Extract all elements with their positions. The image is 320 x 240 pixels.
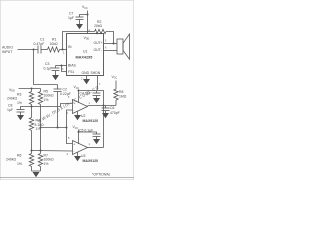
node U3 VCC/C5 junction xyxy=(78,131,80,133)
svg-text:1µF: 1µF xyxy=(7,108,13,112)
wire C4 to ground xyxy=(96,96,98,99)
svg-text:U2: U2 xyxy=(81,114,85,118)
wire R3 bottom xyxy=(31,105,33,107)
ground U2 xyxy=(74,115,81,120)
svg-text:C6: C6 xyxy=(110,106,114,110)
resistor R7 xyxy=(38,154,42,167)
wire BIAS xyxy=(56,65,67,67)
svg-text:C7: C7 xyxy=(69,12,73,16)
svg-text:C5 0.1µF: C5 0.1µF xyxy=(79,128,93,132)
wire U3 ground stub xyxy=(77,152,79,156)
ground C7 xyxy=(76,24,83,29)
svg-text:0.1µF: 0.1µF xyxy=(44,67,53,71)
wire GND pin xyxy=(86,76,88,80)
wire U2 ground stub xyxy=(77,111,79,115)
wire U2 inverting input column xyxy=(67,110,73,144)
wire R2 to OUT+ xyxy=(106,32,114,44)
svg-text:1%: 1% xyxy=(17,101,22,105)
wire U2 VCC riser xyxy=(78,90,80,104)
svg-text:MAX9120: MAX9120 xyxy=(83,159,99,163)
capacitor C4 xyxy=(93,93,101,96)
svg-text:U3: U3 xyxy=(81,154,85,158)
svg-text:240kΩ: 240kΩ xyxy=(7,97,17,101)
svg-text:SHDN: SHDN xyxy=(91,71,101,75)
capacitor C8 xyxy=(17,110,25,113)
svg-text:20kΩ: 20kΩ xyxy=(94,24,103,28)
svg-text:OUT+: OUT+ xyxy=(94,41,103,45)
wire R4 bottom xyxy=(31,131,33,151)
wire R5 top xyxy=(40,89,42,92)
wire C7 to ground xyxy=(79,20,81,25)
wire U3 output xyxy=(88,147,104,149)
wire R7 bottom xyxy=(40,167,42,172)
wire lower threshold line xyxy=(32,150,73,153)
ground divider xyxy=(33,172,40,177)
svg-text:1%: 1% xyxy=(17,162,22,166)
wire R4 top xyxy=(31,107,33,118)
resistor R8 xyxy=(114,89,118,100)
wire OUT+ xyxy=(104,43,118,45)
svg-text:1%: 1% xyxy=(44,98,49,102)
wire U2 noninverting input xyxy=(32,104,73,107)
svg-text:R8: R8 xyxy=(119,90,123,94)
ground C6 xyxy=(102,113,109,118)
wire R8 to rail xyxy=(115,100,117,106)
wire feedback riser xyxy=(63,32,95,50)
svg-text:0.22µF: 0.22µF xyxy=(60,92,71,96)
wire U2 output rail xyxy=(88,105,117,107)
resistor R1 xyxy=(48,47,60,52)
svg-text:BIAS: BIAS xyxy=(68,63,77,67)
svg-text:240kΩ: 240kΩ xyxy=(6,158,16,162)
wire C2 bottom column xyxy=(57,92,59,128)
op-amp U2 MAX9120 xyxy=(73,100,88,114)
wire R3 top xyxy=(31,89,33,92)
wire R5 bottom column xyxy=(40,105,42,151)
wire ground bus xyxy=(32,170,41,172)
capacitor C3 xyxy=(52,68,60,71)
svg-text:OUT-: OUT- xyxy=(94,48,102,52)
wire audio tap to C2 xyxy=(34,50,58,85)
svg-text:R6: R6 xyxy=(17,153,21,157)
ground C5 xyxy=(93,139,100,144)
resistor R6 xyxy=(29,154,33,167)
watermark red script xyxy=(37,84,101,124)
resistor R4 xyxy=(29,118,33,131)
resistor R5 xyxy=(38,92,42,105)
wire C6 to ground xyxy=(105,111,107,114)
resistor R2 xyxy=(95,29,107,33)
node audio input tap xyxy=(33,49,35,51)
svg-text:INPUT: INPUT xyxy=(2,50,13,54)
svg-text:1MΩ: 1MΩ xyxy=(119,94,127,98)
svg-text:C3: C3 xyxy=(45,62,49,66)
svg-text:IN: IN xyxy=(68,45,72,49)
wire VDD rail xyxy=(19,88,41,90)
wire R7 top stub xyxy=(40,151,42,154)
svg-text:10kΩ: 10kΩ xyxy=(50,42,59,46)
op-amp U3 MAX9120 xyxy=(73,141,88,155)
node BIAS junction xyxy=(61,65,63,67)
wire C4 branch xyxy=(79,91,97,94)
svg-text:C8: C8 xyxy=(8,103,12,107)
ground U3 xyxy=(74,156,81,161)
wire C8 branch xyxy=(21,107,32,110)
node R4/R6 junction xyxy=(31,150,33,152)
wire C8 to ground xyxy=(20,112,22,115)
capacitor C6 xyxy=(102,108,110,111)
node IN junction xyxy=(62,49,64,51)
node bus/U2inv junction xyxy=(66,127,68,129)
wire SHDN net xyxy=(98,76,104,148)
ground C4 xyxy=(93,98,100,103)
node U2 VCC/C4 junction xyxy=(78,90,80,92)
capacitor C2 xyxy=(54,89,62,92)
wire FS1 tie xyxy=(62,66,67,72)
svg-text:GND: GND xyxy=(82,71,90,75)
capacitor C7 xyxy=(76,17,84,20)
ground GND pin xyxy=(83,79,90,84)
wire C3 drop xyxy=(55,66,57,69)
capacitor C1 xyxy=(38,46,41,54)
wire C3 to ground xyxy=(55,71,57,76)
node R3/R4 divider xyxy=(31,106,33,108)
svg-text:MAX9120: MAX9120 xyxy=(83,119,99,123)
wire C7 branch xyxy=(80,15,88,18)
wire audio input xyxy=(18,49,38,51)
ground C8 xyxy=(17,115,24,120)
wire C1 to R1 xyxy=(41,49,48,51)
node SHDN/U2 out junction xyxy=(103,105,105,107)
wire R6 bottom xyxy=(31,167,33,172)
op-amp U1 MAX4295 body xyxy=(67,34,104,76)
svg-text:1%: 1% xyxy=(44,162,49,166)
node VCC/C7 junction xyxy=(87,14,89,16)
svg-text:U1: U1 xyxy=(83,50,87,54)
svg-text:MAX4295: MAX4295 xyxy=(76,55,93,59)
wire C5 branch xyxy=(79,132,97,134)
node C2/bus junction xyxy=(57,127,59,129)
node R2/OUT+ junction xyxy=(113,43,115,45)
resistor R3 xyxy=(29,92,33,105)
wire C5 to ground xyxy=(96,137,98,140)
svg-text:R3: R3 xyxy=(17,92,21,96)
wire R1 to IN pin xyxy=(60,49,67,51)
svg-text:470pF: 470pF xyxy=(110,111,120,115)
svg-text:*OPTIONAL: *OPTIONAL xyxy=(92,172,111,176)
wire R6 top stub xyxy=(31,151,33,154)
ground C3 xyxy=(52,75,59,80)
wire OUT- xyxy=(104,50,118,52)
wire C2 top xyxy=(57,85,59,90)
wire VCC to VDD pin xyxy=(87,11,89,34)
node R3 rail tap xyxy=(31,88,33,90)
wire VCC to R8 xyxy=(115,81,117,90)
op-amp polarity marks xyxy=(73,102,75,154)
wire reference bus xyxy=(41,127,67,129)
wire U3 VCC riser xyxy=(78,130,80,145)
svg-text:FS1: FS1 xyxy=(68,70,74,74)
svg-text:1µF: 1µF xyxy=(68,16,74,20)
svg-text:C2: C2 xyxy=(63,87,67,91)
speaker xyxy=(117,34,130,59)
wire C6 stub xyxy=(105,106,107,109)
node R5/R7 junction xyxy=(40,150,42,152)
svg-text:0.47µF: 0.47µF xyxy=(34,42,45,46)
capacitor C5 xyxy=(93,134,101,137)
bottom frame line xyxy=(0,177,134,179)
svg-text:+: + xyxy=(73,143,75,147)
node R5/bus junction xyxy=(40,127,42,129)
svg-text:1%: 1% xyxy=(36,127,41,131)
